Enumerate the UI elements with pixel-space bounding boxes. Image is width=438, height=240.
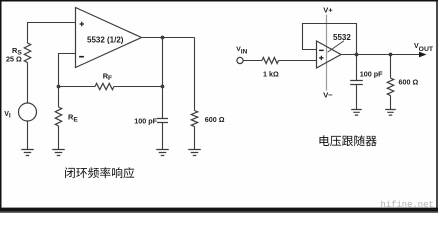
wire: V+ input from Rs top to op-amp U1 noninverting input: [28, 23, 76, 44]
svg-text:100 pF: 100 pF: [134, 116, 157, 125]
wire: VI bottom to ground: [27, 121, 29, 150]
svg-text:5532: 5532: [333, 33, 351, 42]
ground (below C2): [351, 110, 362, 116]
op-amp U1 minus input marker: [79, 56, 84, 58]
svg-text:600 Ω: 600 Ω: [399, 78, 419, 87]
node: inverting input / RF / RE junction: [57, 85, 61, 89]
wire: 600 ohm to ground: [390, 96, 392, 110]
svg-text:25 Ω: 25 Ω: [6, 55, 22, 64]
op-amp U2 minus input marker: [319, 49, 324, 51]
wire: feedback line left segment: [59, 86, 96, 88]
capacitor C1 100 pF: [157, 119, 168, 123]
source VI (circle): [19, 103, 37, 121]
node: RF to output branch junction: [161, 85, 165, 89]
wire: output down to 600 ohm load: [194, 38, 196, 111]
op-amp U1 5532 (1/2) triangle: [76, 8, 142, 68]
resistor RE: [55, 107, 61, 126]
resistor 1 kohm: [262, 58, 279, 64]
wire: output junction down to RF junction and C1: [162, 38, 164, 119]
arrowhead to VOUT: [419, 52, 427, 58]
wire: feedback loop output to U2 inverting input: [303, 24, 357, 55]
node: output junction: [161, 36, 165, 40]
wire: U2 output line: [341, 54, 420, 56]
node: output/600 ohm junction: [389, 53, 393, 57]
wire: 600 ohm bottom to ground: [194, 127, 196, 150]
wire: junction down to 600 ohm load: [390, 55, 392, 79]
wire: C1 bottom to ground: [162, 123, 164, 150]
resistor 600 ohm (right circuit): [387, 78, 393, 96]
wire: RE bottom to ground: [58, 126, 60, 150]
node: output/C2 junction: [355, 53, 359, 57]
ground (below VI): [21, 150, 34, 156]
wire: junction down to RE: [58, 87, 60, 108]
ground (below RE): [52, 150, 65, 156]
op-amp U2 5532 triangle: [317, 41, 342, 68]
wire: U1 output to load branch: [142, 37, 195, 39]
wire: RS bottom to VI source: [27, 63, 29, 104]
svg-text:V−: V−: [323, 91, 333, 100]
resistor RF: [95, 83, 114, 89]
wire: C2 to ground: [356, 85, 358, 110]
svg-text:1 kΩ: 1 kΩ: [263, 70, 279, 79]
caption: voltage follower: [319, 135, 329, 146]
ground (below right 600 ohm): [385, 110, 396, 116]
wire: feedback line right segment: [114, 86, 163, 88]
svg-text:5532 (1/2): 5532 (1/2): [87, 36, 124, 45]
resistor RS: [24, 43, 30, 62]
leader line from 5532 label to U2: [328, 41, 345, 53]
op-amp U1 plus input marker: [80, 22, 84, 26]
wire: U1 inverting input down to feedback node: [59, 54, 76, 87]
terminal VIN (open circle): [237, 57, 243, 63]
svg-text:600 Ω: 600 Ω: [205, 115, 225, 124]
caption: closed-loop frequency response: [65, 167, 75, 178]
svg-text:V+: V+: [323, 6, 333, 15]
wire: V+/V- supply rail (gray): [326, 15, 328, 91]
ground (below left 600 ohm): [188, 150, 201, 156]
op-amp U2 plus input marker: [319, 56, 323, 60]
svg-text:100 pF: 100 pF: [360, 70, 383, 79]
wire: 1k resistor to U2 noninverting input: [279, 60, 317, 62]
wire: junction down to C2: [356, 55, 358, 81]
resistor 600 ohm (left circuit): [191, 111, 197, 127]
wire: VIN to 1k resistor: [243, 60, 262, 62]
capacitor C2 100 pF: [350, 81, 363, 85]
ground (below C1): [156, 150, 169, 156]
